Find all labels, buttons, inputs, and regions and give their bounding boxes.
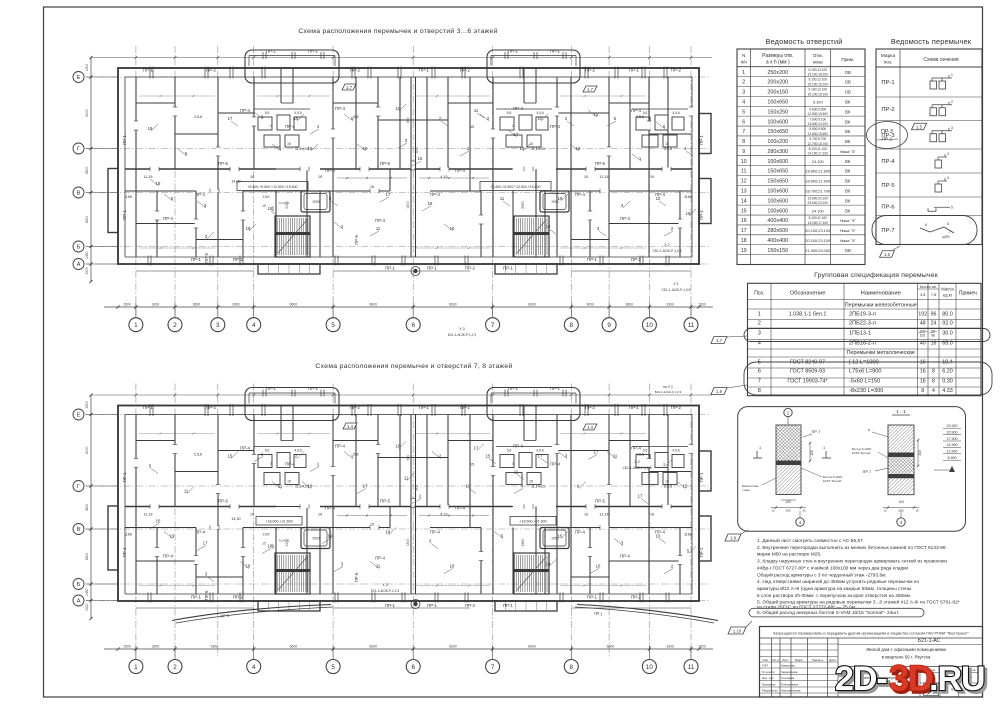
svg-text:ВК: ВК bbox=[845, 189, 851, 194]
svg-text:ПР-2: ПР-2 bbox=[465, 603, 475, 608]
svg-text:200x200: 200x200 bbox=[767, 80, 788, 86]
svg-text:15.100;18.100: 15.100;18.100 bbox=[808, 82, 829, 86]
svg-text:Ниша "Э": Ниша "Э" bbox=[840, 150, 856, 154]
svg-text:ПР-1: ПР-1 bbox=[503, 266, 513, 271]
svg-text:11,14,15: 11,14,15 bbox=[531, 147, 545, 151]
svg-text:5,6: 5,6 bbox=[265, 449, 270, 453]
svg-text:4,5,6: 4,5,6 bbox=[636, 115, 644, 119]
svg-text:23.920: 23.920 bbox=[947, 424, 958, 428]
svg-text:6: 6 bbox=[947, 222, 949, 226]
svg-text:ПР-3: ПР-3 bbox=[881, 129, 893, 135]
svg-text:ПР-4: ПР-4 bbox=[163, 554, 173, 559]
svg-text:19: 19 bbox=[294, 116, 299, 121]
lintel symbol ПР-1 bbox=[930, 81, 937, 89]
svg-text:120: 120 bbox=[810, 450, 814, 456]
svg-text:3300: 3300 bbox=[152, 645, 160, 649]
svg-text:2150: 2150 bbox=[262, 195, 269, 199]
svg-text:11,14,15: 11,14,15 bbox=[531, 485, 545, 489]
svg-text:4. Над отверстиями шириной до: 4. Над отверстиями шириной до 450мм устр… bbox=[757, 578, 920, 585]
svg-text:1: 1 bbox=[758, 311, 761, 317]
svg-text:ПР-4: ПР-4 bbox=[550, 462, 560, 467]
svg-text:9.600;9.600: 9.600;9.600 bbox=[809, 107, 826, 111]
svg-text:ПР-2: ПР-2 bbox=[350, 68, 360, 73]
svg-text:8: 8 bbox=[932, 379, 935, 385]
svg-text:15: 15 bbox=[665, 142, 669, 146]
svg-text:18: 18 bbox=[450, 564, 455, 569]
svg-text:#: # bbox=[868, 428, 870, 432]
svg-text:100: 100 bbox=[898, 500, 904, 504]
svg-text:Б21-1-АСЖ-Р-1,2,3: Б21-1-АСЖ-Р-1,2,3 bbox=[448, 333, 476, 337]
svg-text:6: 6 bbox=[925, 223, 927, 227]
svg-text:ПР-1: ПР-1 bbox=[122, 135, 127, 145]
svg-text:ПР-1: ПР-1 bbox=[191, 257, 201, 262]
svg-text:ПР-2: ПР-2 bbox=[881, 107, 894, 113]
svg-text:18: 18 bbox=[396, 444, 401, 449]
svg-text:17: 17 bbox=[203, 541, 208, 546]
svg-text:ВК: ВК bbox=[845, 208, 851, 213]
revision cloud PR-7 bbox=[872, 216, 977, 245]
svg-text:15: 15 bbox=[228, 454, 233, 459]
svg-text:10: 10 bbox=[646, 664, 654, 671]
svg-text:Нач. отд.: Нач. отд. bbox=[762, 676, 774, 680]
svg-text:Поз.: Поз. bbox=[754, 291, 764, 297]
revision cloud PR-3 bbox=[867, 122, 908, 149]
svg-text:в слое раствора 20-30мм. с пер: в слое раствора 20-30мм. с перепуском за… bbox=[757, 593, 911, 599]
svg-text:400x400: 400x400 bbox=[767, 238, 788, 244]
svg-text:18.700;21.700: 18.700;21.700 bbox=[805, 189, 831, 194]
svg-text:ПР-4: ПР-4 bbox=[513, 444, 523, 449]
revision flags in plan bbox=[342, 84, 356, 90]
svg-text:15: 15 bbox=[883, 509, 887, 513]
svg-text:2150: 2150 bbox=[285, 539, 289, 547]
svg-text:5: 5 bbox=[331, 664, 335, 671]
svg-text:17: 17 bbox=[594, 450, 599, 455]
svg-text:4: 4 bbox=[252, 664, 256, 671]
axis grid dash-dot lines bbox=[135, 46, 137, 316]
svg-text:19: 19 bbox=[520, 146, 525, 151]
svg-text:192: 192 bbox=[918, 311, 927, 317]
svg-text:3D: 3D bbox=[889, 658, 933, 699]
svg-text:11: 11 bbox=[474, 108, 479, 113]
svg-text:9.100;12.100: 9.100;12.100 bbox=[808, 68, 827, 72]
svg-text:17: 17 bbox=[386, 192, 391, 197]
svg-text:3300: 3300 bbox=[152, 303, 160, 307]
svg-text:3600: 3600 bbox=[85, 504, 89, 512]
stair hatching bbox=[275, 553, 310, 594]
svg-text:100x600: 100x600 bbox=[767, 208, 788, 214]
svg-text:ПР-1: ПР-1 bbox=[699, 547, 704, 557]
svg-text:4,15: 4,15 bbox=[440, 175, 447, 179]
wall dim chains bbox=[139, 433, 215, 435]
svg-text:ПР-1: ПР-1 bbox=[308, 386, 318, 391]
svg-text:-5x60 L=150: -5x60 L=150 bbox=[849, 379, 880, 385]
svg-text:9.100: 9.100 bbox=[813, 99, 824, 104]
svg-text:ПР-4: ПР-4 bbox=[620, 554, 630, 559]
svg-text:Гл.констр: Гл.констр bbox=[762, 670, 775, 674]
svg-text:12: 12 bbox=[741, 179, 747, 185]
svg-text:из стали 25Г2С по ГОСТ 27772-8: из стали 25Г2С по ГОСТ 27772-88* — 75.0к… bbox=[757, 605, 856, 611]
svg-text:15: 15 bbox=[771, 509, 775, 513]
svg-text:4: 4 bbox=[947, 176, 949, 180]
svg-text:У-2: У-2 bbox=[664, 243, 669, 247]
svg-text:ПР-1: ПР-1 bbox=[881, 80, 894, 86]
svg-text:14,30: 14,30 bbox=[231, 517, 240, 521]
svg-text:11: 11 bbox=[500, 196, 505, 201]
svg-text:ВК: ВК bbox=[845, 129, 851, 134]
svg-text:ПР-7: ПР-7 bbox=[881, 228, 894, 234]
svg-text:5,6: 5,6 bbox=[353, 115, 358, 119]
svg-text:ГОСТ 8509-93: ГОСТ 8509-93 bbox=[790, 369, 825, 375]
svg-text:ПР-4: ПР-4 bbox=[335, 106, 345, 111]
svg-text:#4Вр-I ГОСТ 6727-80* с ячейк: #4Вр-I ГОСТ 6727-80* с ячейкой 100х100 м… bbox=[757, 565, 908, 572]
lintel symbol ПР-4 bbox=[935, 160, 942, 168]
svg-text:150x650: 150x650 bbox=[767, 129, 788, 135]
svg-text:Аммосова: Аммосова bbox=[781, 664, 795, 668]
svg-text:Наименование: Наименование bbox=[861, 291, 901, 297]
svg-text:ПР-2: ПР-2 bbox=[233, 257, 243, 262]
svg-text:100x600: 100x600 bbox=[767, 189, 788, 195]
svg-text:ПР-5: ПР-5 bbox=[354, 235, 359, 245]
svg-text:3: 3 bbox=[216, 322, 220, 329]
bathroom clusters bbox=[258, 117, 272, 130]
interior horizontal walls bbox=[136, 102, 175, 104]
top dimension line bbox=[91, 394, 712, 396]
svg-text:19.600;20.100: 19.600;20.100 bbox=[808, 196, 829, 200]
svg-text:8: 8 bbox=[570, 664, 574, 671]
svg-text:2950: 2950 bbox=[312, 200, 320, 204]
svg-text:1: 1 bbox=[134, 322, 138, 329]
svg-text:ГИП: ГИП bbox=[762, 664, 768, 668]
svg-text:15: 15 bbox=[529, 480, 533, 484]
svg-text:А: А bbox=[77, 262, 81, 268]
svg-text:17: 17 bbox=[638, 494, 643, 499]
svg-text:15.100;18.100: 15.100;18.100 bbox=[808, 92, 829, 96]
svg-text:1160: 1160 bbox=[124, 195, 132, 199]
svg-text:ПР-4: ПР-4 bbox=[325, 506, 335, 511]
svg-text:3. Кладку наружных стен и вну: 3. Кладку наружных стен и внутренних пер… bbox=[757, 558, 947, 565]
svg-text:Б21-1-АСЖ-У-1,2,3: Б21-1-АСЖ-У-1,2,3 bbox=[655, 390, 682, 394]
corridor walls bbox=[125, 506, 276, 508]
svg-text:11: 11 bbox=[688, 664, 695, 671]
lintel symbol ПР-5 bbox=[935, 184, 942, 192]
svg-text:ПР-1: ПР-1 bbox=[419, 68, 429, 73]
svg-text:ПР-4: ПР-4 bbox=[430, 530, 440, 535]
detail 1 wall section bbox=[776, 425, 801, 461]
svg-text:1.038.1-1 бел.1: 1.038.1-1 бел.1 bbox=[789, 311, 827, 317]
svg-text:4500: 4500 bbox=[85, 216, 89, 224]
stage/sheet cells bbox=[919, 667, 921, 698]
svg-text:8: 8 bbox=[742, 139, 745, 145]
logo box + lightning bbox=[924, 683, 939, 696]
svg-text:8: 8 bbox=[932, 369, 935, 375]
svg-text:ПР-4: ПР-4 bbox=[513, 106, 523, 111]
svg-text:10: 10 bbox=[250, 513, 254, 517]
outer walls bbox=[118, 68, 699, 264]
svg-text:В: В bbox=[77, 191, 81, 197]
svg-text:6: 6 bbox=[742, 119, 745, 125]
svg-text:13.600;14.100: 13.600;14.100 bbox=[808, 122, 829, 126]
svg-text:10: 10 bbox=[741, 159, 747, 165]
svg-text:15: 15 bbox=[802, 509, 806, 513]
svg-text:СБ1-1-АСЖ-Р-1,2,3: СБ1-1-АСЖ-Р-1,2,3 bbox=[653, 249, 682, 253]
svg-text:12,14: 12,14 bbox=[599, 175, 608, 179]
svg-text:15: 15 bbox=[470, 463, 474, 467]
svg-text:ПР-6: ПР-6 bbox=[881, 204, 894, 210]
svg-text:15: 15 bbox=[741, 208, 747, 214]
svg-text:20.100;23.100: 20.100;23.100 bbox=[805, 238, 831, 243]
interior horizontal walls bbox=[136, 440, 175, 442]
svg-text:7.600;9.100: 7.600;9.100 bbox=[809, 117, 826, 121]
svg-text:ПР-7: ПР-7 bbox=[812, 430, 821, 434]
svg-text:19: 19 bbox=[741, 248, 747, 254]
svg-text:18: 18 bbox=[246, 226, 251, 231]
svg-text:15: 15 bbox=[287, 142, 291, 146]
door openings bbox=[135, 459, 138, 468]
svg-text:ПР-4: ПР-4 bbox=[631, 108, 641, 113]
svg-text:ПР-4: ПР-4 bbox=[575, 192, 585, 197]
svg-text:1160: 1160 bbox=[684, 195, 692, 199]
svg-text:1450: 1450 bbox=[85, 251, 89, 259]
svg-text:1.6: 1.6 bbox=[884, 252, 890, 257]
svg-text:ПР-1: ПР-1 bbox=[122, 210, 127, 220]
svg-text:19: 19 bbox=[650, 175, 654, 179]
svg-text:2: 2 bbox=[173, 664, 177, 671]
svg-text:Обозначение: Обозначение bbox=[790, 291, 826, 297]
svg-text:5: 5 bbox=[742, 109, 745, 115]
svg-text:6: 6 bbox=[411, 664, 415, 671]
svg-text:15: 15 bbox=[915, 509, 919, 513]
svg-text:Ниша "Э": Ниша "Э" bbox=[840, 219, 856, 223]
svg-text:9.700;9.700: 9.700;9.700 bbox=[809, 137, 826, 141]
svg-text:15: 15 bbox=[287, 480, 291, 484]
svg-text:+18.600,+21.600: +18.600,+21.600 bbox=[519, 520, 546, 524]
svg-text:ПР-5: ПР-5 bbox=[881, 183, 894, 189]
svg-text:1: 1 bbox=[134, 664, 138, 671]
svg-text:6600: 6600 bbox=[290, 303, 298, 307]
svg-text:92.0: 92.0 bbox=[942, 321, 953, 327]
svg-text:3600: 3600 bbox=[85, 167, 89, 175]
svg-text:15.100;18.100: 15.100;18.100 bbox=[808, 73, 829, 77]
svg-text:7: 7 bbox=[949, 230, 951, 234]
svg-text:арматуры Ø12 А-III (одна армат: арматуры Ø12 А-III (одна арматура на каж… bbox=[757, 586, 912, 592]
svg-text:ВК: ВК bbox=[845, 119, 851, 124]
svg-text:2950: 2950 bbox=[312, 537, 320, 541]
svg-text:2: 2 bbox=[270, 124, 272, 128]
svg-text:17: 17 bbox=[474, 446, 479, 451]
svg-text:Схема расположения перемычек и: Схема расположения перемычек и отверстий… bbox=[298, 27, 497, 35]
svg-text:11: 11 bbox=[376, 226, 381, 231]
svg-text:15: 15 bbox=[470, 125, 474, 129]
svg-text:Размеры отв.: Размеры отв. bbox=[762, 53, 793, 59]
svg-text:Марка: Марка bbox=[881, 53, 896, 59]
svg-text:8.900: 8.900 bbox=[948, 456, 957, 460]
elevation box bbox=[256, 517, 302, 526]
svg-text:1500: 1500 bbox=[698, 303, 706, 307]
svg-text:3000: 3000 bbox=[232, 303, 240, 307]
svg-text:N: N bbox=[742, 53, 745, 58]
svg-text:18.600;21.600: 18.600;21.600 bbox=[805, 169, 831, 174]
svg-text:ПР-4: ПР-4 bbox=[195, 192, 205, 197]
svg-text:15: 15 bbox=[558, 534, 563, 539]
svg-text:ПР-1: ПР-1 bbox=[385, 603, 395, 608]
svg-text:Подпись: Подпись bbox=[812, 658, 824, 662]
svg-text:Ниша "Э": Ниша "Э" bbox=[840, 239, 856, 243]
svg-text:ПР-5: ПР-5 bbox=[204, 590, 209, 600]
svg-text:ПР-1: ПР-1 bbox=[699, 210, 704, 220]
svg-text:ПР-2: ПР-2 bbox=[671, 405, 681, 410]
svg-text:10: 10 bbox=[656, 196, 661, 201]
svg-text:6.20: 6.20 bbox=[942, 369, 953, 375]
lintel symbol PR-6 bbox=[927, 208, 929, 211]
svg-text:ПР-4: ПР-4 bbox=[575, 530, 585, 535]
2D-3D.RU watermark bbox=[835, 658, 987, 701]
svg-text:ВК: ВК bbox=[845, 109, 851, 114]
svg-text:Г: Г bbox=[77, 484, 80, 490]
top bay windows bbox=[245, 50, 339, 83]
svg-text:100x600: 100x600 bbox=[767, 159, 788, 165]
svg-text:ПР-2: ПР-2 bbox=[460, 405, 470, 410]
wall dim chains bbox=[139, 95, 215, 97]
axis bubbles bottom bbox=[129, 318, 143, 332]
svg-text:4,5,6: 4,5,6 bbox=[536, 449, 543, 453]
svg-text:ПР-4: ПР-4 bbox=[285, 462, 295, 467]
svg-text:ПР-2: ПР-2 bbox=[460, 68, 470, 73]
svg-text:2ПБ19-3-п: 2ПБ19-3-п bbox=[849, 311, 876, 317]
svg-text:3600: 3600 bbox=[625, 303, 633, 307]
svg-text:ПР-5: ПР-5 bbox=[380, 161, 390, 166]
title block left grid bbox=[771, 638, 773, 697]
svg-text:2: 2 bbox=[512, 124, 514, 128]
svg-text:2: 2 bbox=[512, 462, 514, 466]
svg-text:1.9: 1.9 bbox=[730, 535, 736, 540]
svg-text:1.5: 1.5 bbox=[916, 124, 922, 129]
svg-text:17: 17 bbox=[363, 484, 368, 489]
svg-text:ПР-1: ПР-1 bbox=[191, 595, 201, 600]
svg-text:ПР-2: ПР-2 bbox=[585, 405, 595, 410]
svg-text:1.7: 1.7 bbox=[716, 338, 722, 343]
corridor dims bbox=[337, 177, 407, 179]
curved bays 7-8 floors bbox=[172, 605, 331, 621]
svg-text:У-3: У-3 bbox=[382, 583, 387, 587]
svg-text:14.100;17.100: 14.100;17.100 bbox=[808, 152, 829, 156]
benchmark circle bbox=[411, 267, 420, 276]
svg-text:2,5,6: 2,5,6 bbox=[664, 485, 672, 489]
svg-text:15: 15 bbox=[665, 480, 669, 484]
svg-text:0.30: 0.30 bbox=[942, 379, 953, 385]
svg-text:Проверил: Проверил bbox=[762, 683, 776, 687]
svg-text:ПР-4: ПР-4 bbox=[163, 216, 173, 221]
axis bubbles bottom bbox=[129, 660, 143, 674]
svg-text:1160: 1160 bbox=[124, 533, 132, 537]
svg-text:18.600;21.600: 18.600;21.600 bbox=[805, 179, 831, 184]
svg-text:1 - 1: 1 - 1 bbox=[896, 409, 906, 415]
svg-text:2: 2 bbox=[270, 462, 272, 466]
svg-text:4500: 4500 bbox=[85, 553, 89, 561]
svg-text:ПР-1: ПР-1 bbox=[266, 386, 276, 391]
svg-text:4,5,6: 4,5,6 bbox=[294, 111, 301, 115]
svg-text:11,19: 11,19 bbox=[144, 175, 153, 179]
svg-text:48: 48 bbox=[920, 321, 926, 327]
vestibule walls bbox=[280, 68, 282, 103]
dimension line bottom bbox=[104, 648, 713, 650]
svg-text:6: 6 bbox=[758, 369, 761, 375]
svg-text:5300: 5300 bbox=[211, 645, 219, 649]
svg-text:1500: 1500 bbox=[406, 539, 410, 547]
svg-text:ПР-1: ПР-1 bbox=[629, 68, 639, 73]
svg-text:14,30: 14,30 bbox=[231, 180, 240, 184]
svg-text:4: 4 bbox=[932, 388, 935, 394]
svg-text:марки М50 на растворе М25.: марки М50 на растворе М25. bbox=[757, 552, 821, 558]
svg-text:2,5,6: 2,5,6 bbox=[664, 147, 672, 151]
svg-text:5,6: 5,6 bbox=[507, 449, 512, 453]
svg-text:3300: 3300 bbox=[666, 303, 674, 307]
svg-text:100: 100 bbox=[785, 500, 791, 504]
svg-text:7: 7 bbox=[758, 379, 761, 385]
svg-text:ПР-1: ПР-1 bbox=[550, 49, 560, 54]
svg-text:ПР-1: ПР-1 bbox=[699, 135, 704, 145]
svg-text:15: 15 bbox=[418, 156, 423, 161]
svg-text:20.100;23.100: 20.100;23.100 bbox=[805, 228, 831, 233]
svg-text:19: 19 bbox=[546, 224, 551, 229]
svg-text:ПР-7: ПР-7 bbox=[863, 470, 872, 474]
svg-text:Отм.: Отм. bbox=[813, 53, 823, 58]
interior vertical walls bbox=[135, 77, 137, 257]
svg-text:ВК: ВК bbox=[845, 198, 851, 203]
detail panel frame bbox=[738, 407, 966, 532]
svg-text:стена: стена bbox=[742, 488, 750, 492]
svg-text:Е: Е bbox=[77, 413, 81, 419]
svg-text:19: 19 bbox=[328, 534, 333, 539]
svg-text:4,5,6: 4,5,6 bbox=[672, 111, 679, 115]
svg-text:6600: 6600 bbox=[449, 645, 457, 649]
svg-text:L75x6 L=900: L75x6 L=900 bbox=[849, 369, 882, 375]
svg-text:4,5,6: 4,5,6 bbox=[536, 111, 543, 115]
svg-text:Запрещается тиражировать и пер: Запрещается тиражировать и передавать др… bbox=[773, 632, 970, 636]
dimension line bottom bbox=[104, 306, 713, 308]
svg-text:Анисимбекова: Анисимбекова bbox=[781, 689, 801, 693]
lintel symbol ПР-2 bbox=[930, 108, 937, 116]
svg-text:12.600;15.600: 12.600;15.600 bbox=[808, 112, 829, 116]
svg-text:2. Внутренние перегородки вып: 2. Внутренние перегородки выполнить из м… bbox=[757, 544, 946, 551]
svg-text:30.0: 30.0 bbox=[942, 331, 953, 337]
svg-text:Примеч.: Примеч. bbox=[959, 291, 978, 297]
svg-text:1: 1 bbox=[951, 73, 953, 77]
axis bubbles left + vertical dims bbox=[90, 58, 92, 282]
svg-text:Прим.: Прим. bbox=[841, 57, 854, 62]
svg-text:ПР-4: ПР-4 bbox=[375, 218, 385, 223]
svg-text:Ведомость перемычек: Ведомость перемычек bbox=[891, 37, 972, 46]
svg-text:8: 8 bbox=[570, 322, 574, 329]
svg-text:7: 7 bbox=[491, 322, 495, 329]
svg-text:1500: 1500 bbox=[85, 401, 89, 409]
svg-text:8.100;11.100: 8.100;11.100 bbox=[809, 216, 828, 220]
flag 1.9 bbox=[725, 534, 741, 541]
svg-text:Б21-1-АС: Б21-1-АС bbox=[918, 638, 941, 644]
top dimension line bbox=[91, 57, 712, 59]
svg-text:1.4: 1.4 bbox=[347, 424, 353, 429]
svg-text:11: 11 bbox=[741, 169, 746, 175]
svg-text:ПР-1: ПР-1 bbox=[122, 547, 127, 557]
svg-text:21.000;24.000: 21.000;24.000 bbox=[805, 248, 831, 253]
svg-text:6000: 6000 bbox=[85, 446, 89, 454]
svg-text:ПР-2: ПР-2 bbox=[631, 257, 641, 262]
svg-text:10: 10 bbox=[396, 106, 401, 111]
svg-text:ПР-4: ПР-4 bbox=[285, 124, 295, 129]
svg-text:Разработал: Разработал bbox=[762, 689, 778, 693]
svg-text:96: 96 bbox=[931, 311, 937, 317]
svg-text:4,5,6: 4,5,6 bbox=[636, 453, 644, 457]
svg-text:100x600: 100x600 bbox=[767, 119, 788, 125]
